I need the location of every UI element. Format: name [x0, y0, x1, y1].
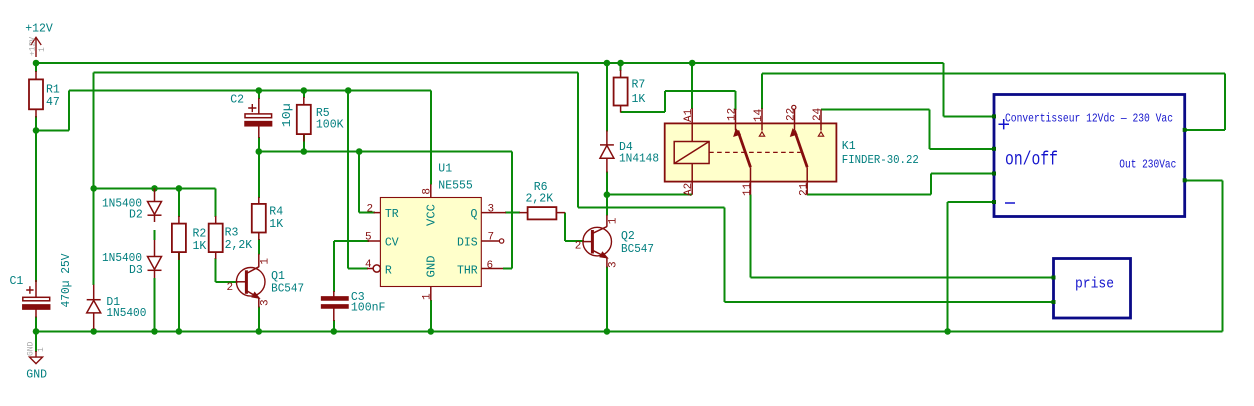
svg-text:A2: A2 [683, 183, 695, 196]
svg-text:100nF: 100nF [351, 302, 386, 315]
svg-text:2: 2 [575, 240, 582, 252]
svg-text:47: 47 [46, 96, 60, 109]
svg-text:on/off: on/off [1005, 149, 1058, 171]
svg-text:R1: R1 [46, 84, 60, 97]
svg-text:470µ 25V: 470µ 25V [60, 253, 73, 307]
svg-text:1: 1 [37, 347, 46, 352]
svg-text:14: 14 [753, 108, 765, 122]
svg-text:R7: R7 [632, 79, 646, 92]
svg-text:2: 2 [367, 203, 374, 215]
svg-text:11: 11 [742, 182, 754, 196]
svg-text:1N5400: 1N5400 [106, 307, 146, 320]
svg-text:1: 1 [38, 47, 47, 52]
svg-text:GND: GND [26, 369, 47, 382]
svg-text:R4: R4 [269, 206, 283, 219]
svg-text:12: 12 [726, 108, 738, 121]
svg-text:FINDER-30.22: FINDER-30.22 [842, 154, 919, 167]
svg-text:D2: D2 [129, 209, 143, 222]
svg-text:A1: A1 [683, 108, 695, 122]
svg-text:Q: Q [471, 208, 478, 221]
svg-text:U1: U1 [438, 162, 452, 175]
svg-text:2: 2 [227, 282, 234, 294]
svg-text:+12V: +12V [29, 37, 38, 56]
svg-text:R3: R3 [225, 227, 239, 240]
svg-text:THR: THR [457, 265, 478, 278]
svg-text:CV: CV [385, 236, 399, 249]
svg-text:prise: prise [1075, 276, 1114, 293]
svg-text:4: 4 [365, 259, 372, 271]
svg-text:5: 5 [365, 232, 372, 244]
svg-text:BC547: BC547 [271, 283, 304, 296]
svg-text:D3: D3 [129, 264, 143, 277]
svg-text:1K: 1K [269, 218, 283, 231]
svg-text:3: 3 [260, 299, 272, 306]
svg-text:1: 1 [422, 293, 434, 300]
svg-text:BC547: BC547 [621, 243, 654, 256]
svg-text:7: 7 [488, 231, 495, 243]
svg-text:R2: R2 [193, 227, 207, 240]
svg-text:2,2K: 2,2K [526, 193, 554, 206]
svg-text:21: 21 [799, 182, 811, 196]
svg-text:Convertisseur 12Vdc — 230 Vac: Convertisseur 12Vdc — 230 Vac [1005, 111, 1173, 125]
svg-text:2,2K: 2,2K [225, 239, 253, 252]
svg-text:Q2: Q2 [621, 230, 635, 243]
svg-text:22: 22 [785, 108, 797, 121]
svg-text:R: R [385, 265, 392, 278]
svg-text:1: 1 [607, 217, 619, 224]
svg-text:TR: TR [385, 208, 399, 221]
svg-text:10µ: 10µ [281, 103, 294, 127]
svg-text:DIS: DIS [457, 236, 478, 249]
svg-text:24: 24 [812, 107, 824, 121]
svg-text:100K: 100K [316, 119, 344, 132]
svg-text:6: 6 [487, 260, 494, 272]
svg-text:+12V: +12V [25, 22, 53, 35]
svg-text:C1: C1 [10, 275, 24, 288]
svg-text:Out 230Vac: Out 230Vac [1119, 157, 1176, 171]
svg-text:GND: GND [426, 255, 439, 277]
svg-text:Q1: Q1 [271, 270, 285, 283]
svg-text:3: 3 [607, 261, 619, 268]
svg-text:1: 1 [259, 258, 271, 265]
svg-text:1K: 1K [193, 240, 207, 253]
svg-text:1N4148: 1N4148 [619, 153, 659, 166]
svg-text:NE555: NE555 [438, 180, 473, 193]
svg-text:GND: GND [27, 341, 36, 356]
svg-text:C2: C2 [230, 94, 244, 107]
svg-text:3: 3 [488, 203, 495, 215]
svg-text:K1: K1 [842, 140, 856, 153]
svg-text:VCC: VCC [426, 204, 439, 226]
svg-text:8: 8 [422, 188, 434, 195]
svg-text:1K: 1K [632, 93, 646, 106]
